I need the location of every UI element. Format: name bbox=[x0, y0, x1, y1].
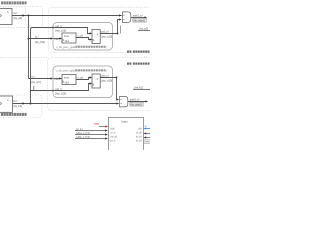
dashed group box: a-side timestamp counter group bbox=[0, 6, 43, 27]
svg-text:pcl_i /: pcl_i / bbox=[56, 24, 63, 28]
annotation: a-side address update (right margin) bbox=[127, 51, 150, 53]
counter C1 (a-side timestamp counter) bbox=[0, 9, 12, 25]
annotation: b-side address update (right margin) bbox=[127, 63, 150, 65]
module u_tb_gen1 (lower pulse generator) bbox=[53, 66, 113, 98]
svg-text:addr1_a /: addr1_a / bbox=[133, 15, 143, 18]
svg-text:wa_a0: wa_a0 bbox=[110, 137, 117, 139]
svg-text:wdba_a [7:0]: wdba_a [7:0] bbox=[76, 132, 90, 135]
svg-text:(: ( bbox=[73, 69, 74, 73]
svg-text:pcl_o /: pcl_o / bbox=[102, 74, 110, 78]
wire W1: counter A output ta bbox=[12, 15, 122, 17]
svg-text:ra_a0: ra_a0 bbox=[136, 132, 143, 135]
wire clk to timer T2 bbox=[53, 78, 60, 80]
svg-text:[hb_addr1]: [hb_addr1] bbox=[134, 19, 146, 22]
svg-text:ta /: ta / bbox=[14, 11, 18, 15]
wire ra_b0 right of bram bbox=[145, 137, 150, 139]
arrowhead W2 into mux2 in2 bbox=[116, 102, 119, 104]
svg-text:): ) bbox=[106, 69, 107, 73]
wire wd bus into bram bbox=[75, 138, 106, 140]
annotation label a-side (Japanese, simulated glyph blobs) bbox=[1, 1, 27, 4]
wire branch into module1 clk port bbox=[29, 38, 52, 40]
node: junction dots on W1 bbox=[22, 15, 24, 17]
svg-text:rd_b0: rd_b0 bbox=[136, 140, 143, 143]
wire FF2 output pcl_o bbox=[100, 77, 116, 79]
svg-text:wr_in: wr_in bbox=[110, 132, 116, 135]
mux U1 (upper address mux) bbox=[123, 12, 131, 23]
svg-text:timer: timer bbox=[64, 77, 70, 80]
svg-text:tb /: tb / bbox=[14, 99, 18, 103]
svg-text:[tw_a0]: [tw_a0] bbox=[140, 27, 149, 31]
label box [hb_addr2] bbox=[130, 102, 144, 106]
svg-text:timer: timer bbox=[64, 35, 70, 38]
flip-flop FF1 bbox=[92, 30, 100, 44]
svg-text:tc /: tc / bbox=[32, 75, 36, 79]
svg-text:[hw_c10]: [hw_c10] bbox=[56, 91, 67, 95]
timer T2 bbox=[62, 75, 76, 85]
module u_tb_gen0 (upper pulse generator) bbox=[53, 23, 113, 51]
svg-text:[tw_b1]: [tw_b1] bbox=[14, 104, 23, 108]
svg-text:c_clk: c_clk bbox=[78, 77, 84, 80]
svg-text:[tw_b1]: [tw_b1] bbox=[135, 86, 144, 90]
svg-text:wdbb_a [7:0]: wdbb_a [7:0] bbox=[76, 136, 90, 139]
svg-text:[tw_cnt]: [tw_cnt] bbox=[32, 80, 41, 84]
wire c_clk T2 to FF2 bbox=[76, 78, 91, 80]
wire V_B: from W2 up to module1 pcl_i, branch to module2 pcl_i bbox=[31, 28, 91, 104]
wire wr_in into bram bbox=[75, 130, 106, 132]
svg-text:[hw_c10]: [hw_c10] bbox=[56, 28, 67, 32]
arrowhead W1 into mux1 in1 bbox=[119, 14, 122, 16]
svg-text:[pw_o10]: [pw_o10] bbox=[102, 78, 113, 82]
dashed line extension left of lower group bbox=[0, 57, 48, 59]
wire mux2 output addr2_b bbox=[128, 101, 146, 103]
wire ra_a0 right of bram bbox=[145, 133, 150, 135]
svg-text:web: web bbox=[94, 121, 100, 125]
node on module1 edge (pcl_i port) bbox=[52, 27, 54, 29]
svg-text:[tw_a0]: [tw_a0] bbox=[14, 16, 23, 20]
counter C2 (b-side address counter) bbox=[0, 96, 13, 112]
dashed group box: lower address-update group bbox=[48, 58, 157, 111]
stub wire bbox=[120, 26, 122, 34]
wire web into bram (red-highlighted) bbox=[99, 126, 106, 128]
svg-text:addr2_b /: addr2_b / bbox=[130, 99, 140, 102]
svg-text:wr_b: wr_b bbox=[110, 140, 116, 143]
svg-text:c_clk: c_clk bbox=[78, 35, 84, 38]
flip-flop FF2 bbox=[92, 74, 100, 88]
wire V_A end into module2 clk port bbox=[29, 78, 52, 80]
wire FF2 out down to mux2 in1 bbox=[116, 78, 119, 100]
dashed group box: upper address-update group bbox=[48, 7, 156, 52]
faint vertical guide line bbox=[25, 7, 27, 22]
bram block (dual port memory) bbox=[109, 118, 144, 154]
svg-text:bram: bram bbox=[122, 119, 129, 123]
wire wa bus into bram bbox=[75, 134, 106, 136]
stub wire near tw_cnt label bbox=[33, 86, 35, 91]
timer T1 bbox=[62, 33, 76, 43]
wire FF1 output pcl_o bbox=[100, 33, 117, 35]
label box right of bram bbox=[144, 140, 151, 144]
node: junction dots on W2 bbox=[22, 103, 24, 105]
svg-text:pcl_i /: pcl_i / bbox=[56, 87, 63, 91]
svg-text:tc /: tc / bbox=[35, 35, 39, 39]
svg-text:pcl_o /: pcl_o / bbox=[102, 30, 110, 34]
label box [hb_addr1] bbox=[133, 18, 147, 22]
svg-text:ra_b0: ra_b0 bbox=[136, 136, 143, 139]
annotation label b-side (Japanese, simulated glyph blobs) bbox=[1, 113, 27, 116]
wire branch into module2 pcl_i then up to FF2 bbox=[31, 84, 91, 91]
svg-text:[tw_ctr0]: [tw_ctr0] bbox=[35, 40, 45, 44]
svg-text:wr_in /: wr_in / bbox=[76, 128, 83, 131]
svg-text:clk1: clk1 bbox=[65, 40, 70, 43]
wire rclk (blue highlighted net) bbox=[145, 128, 150, 130]
svg-text:[hb_addr2]: [hb_addr2] bbox=[131, 103, 143, 106]
wire clk to timer T1 bbox=[53, 38, 60, 40]
svg-text:): ) bbox=[106, 45, 107, 49]
wire W2: counter B output tb bbox=[13, 103, 119, 105]
mux U2 (lower address mux) bbox=[120, 96, 128, 107]
wire V_A: from W1 down to module2 clk, branch to module1 clk bbox=[28, 16, 30, 79]
wire FF1 out up to mux1 in2 bbox=[118, 20, 121, 34]
svg-text:[pw_o10]: [pw_o10] bbox=[102, 34, 113, 38]
wire mux1 output addr1_a bbox=[131, 17, 145, 19]
svg-text:clk1: clk1 bbox=[65, 81, 70, 84]
svg-text:(: ( bbox=[73, 45, 74, 49]
dashed group box: b-side address counter group bbox=[0, 95, 42, 118]
wire c_clk T1 to FF1 bbox=[76, 38, 91, 40]
